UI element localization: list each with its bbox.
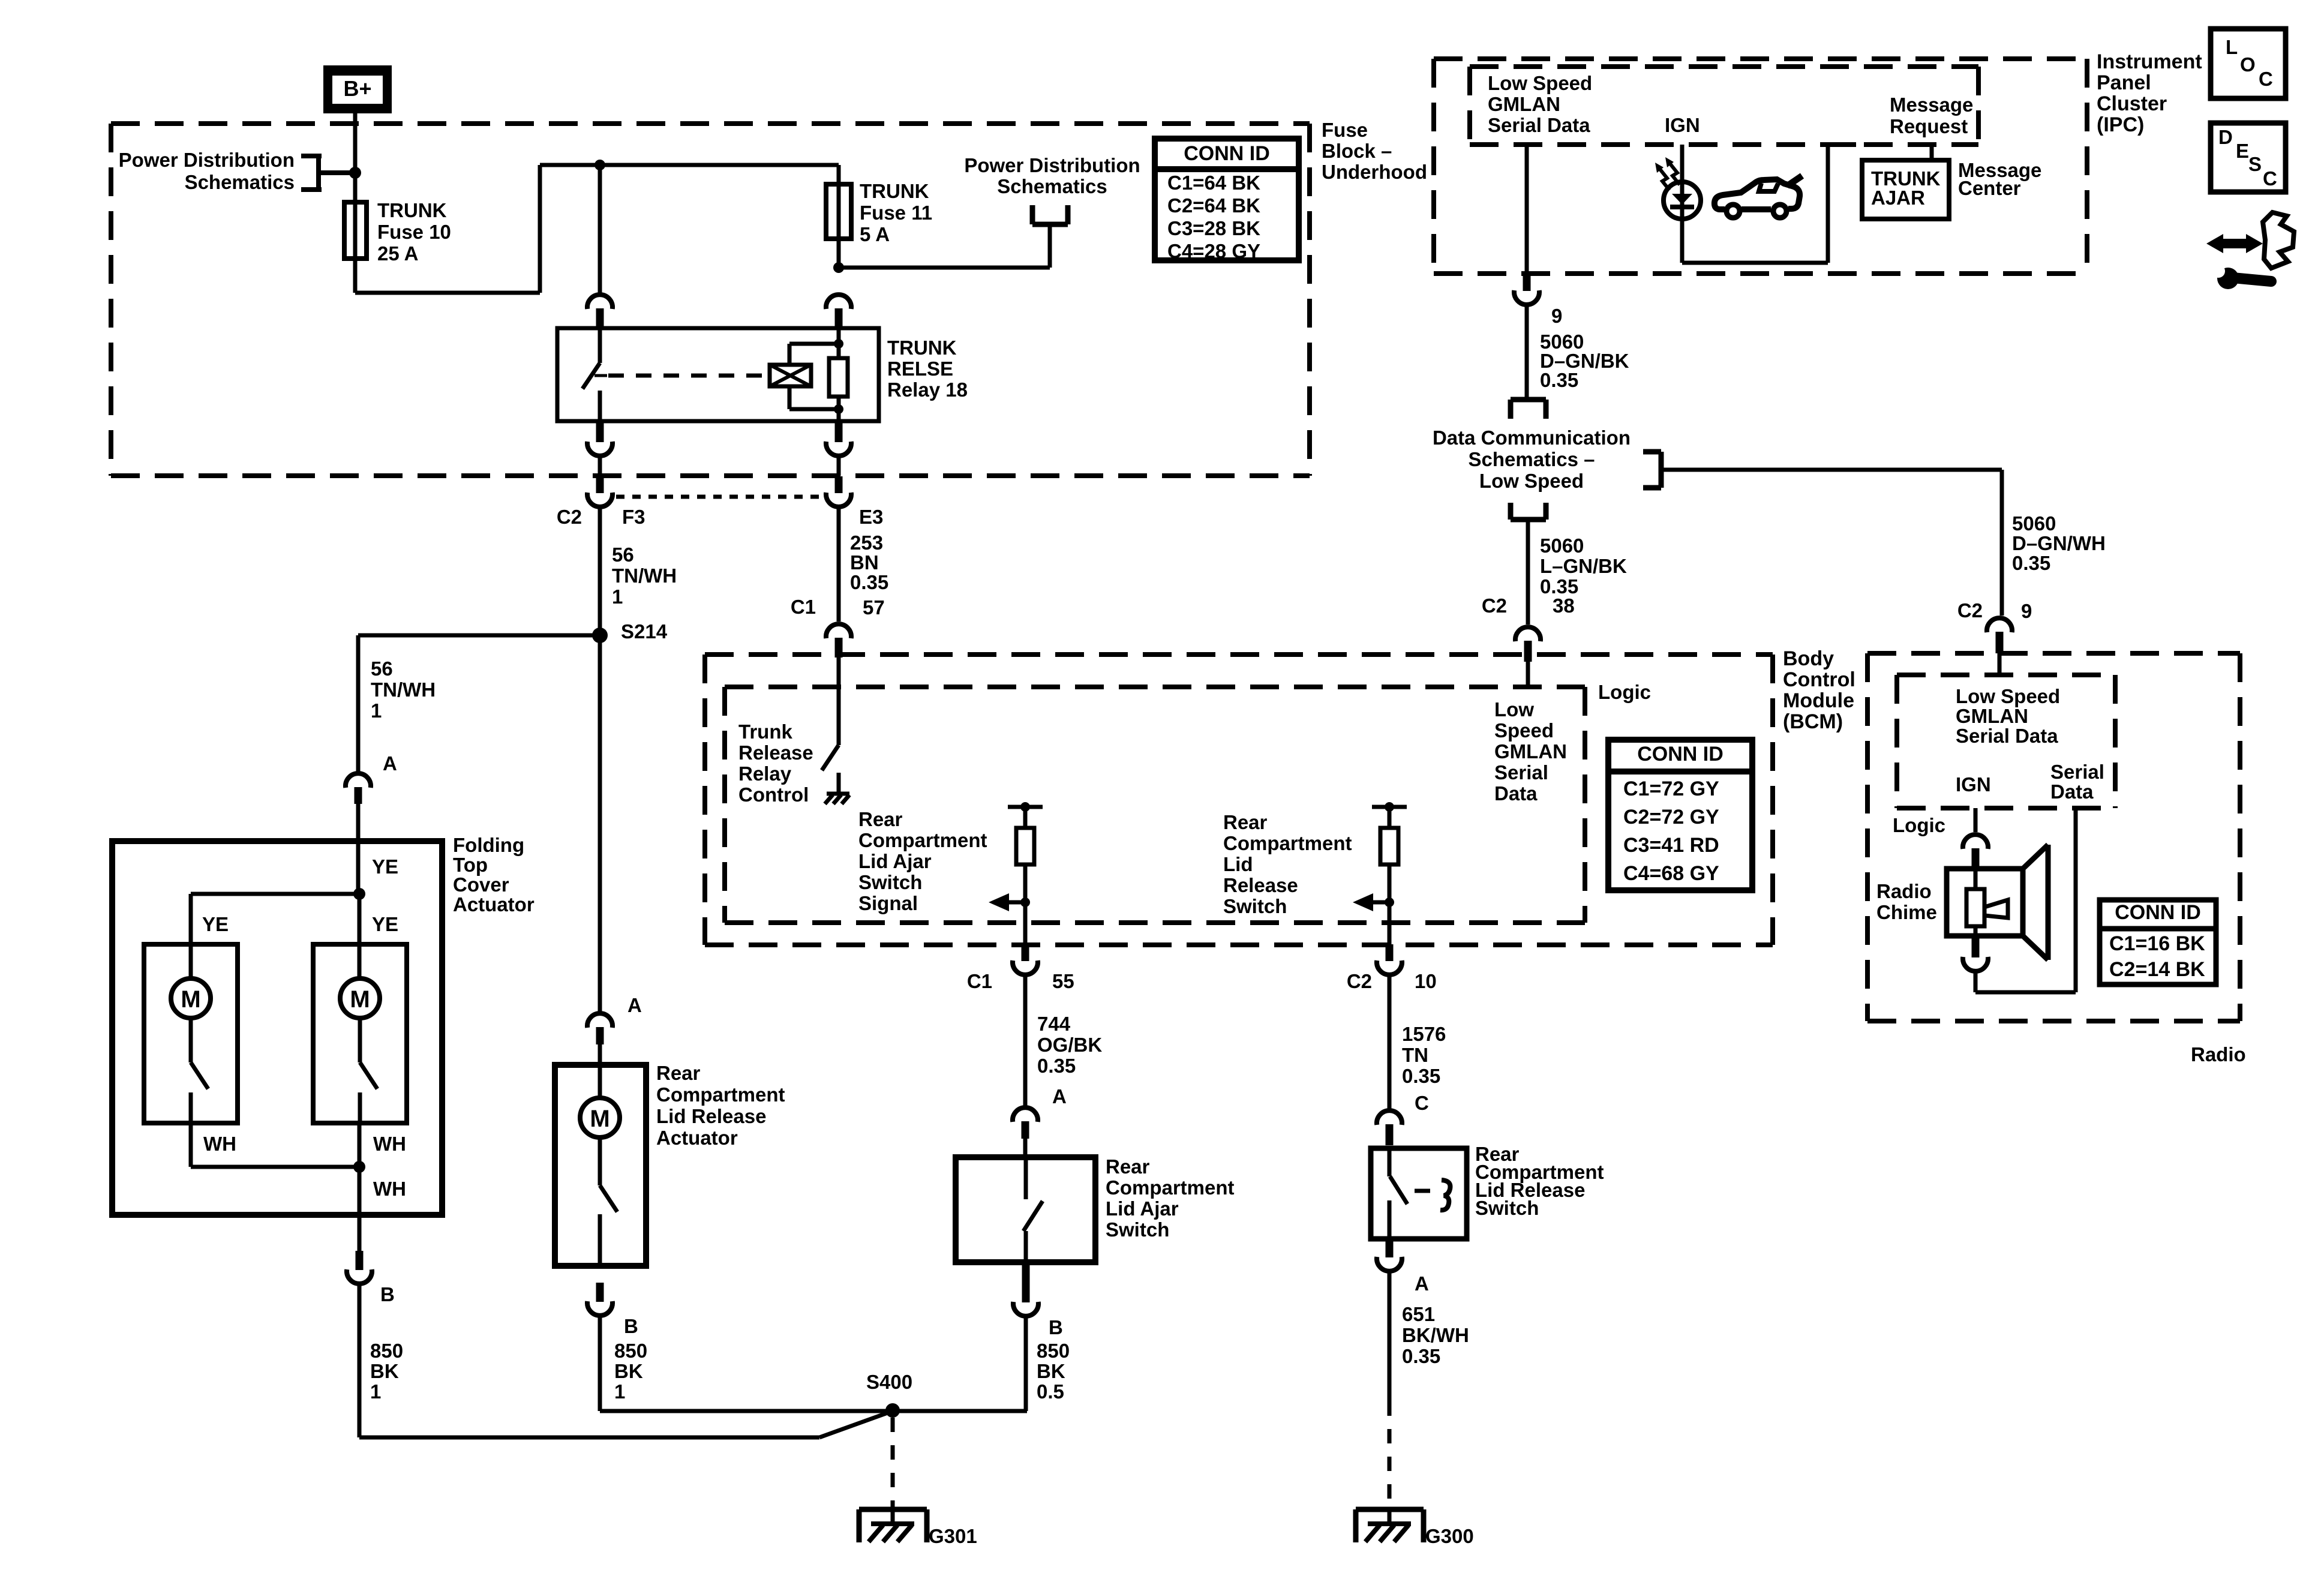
svg-text:M: M xyxy=(181,986,200,1013)
svg-text:D–GN/WH: D–GN/WH xyxy=(2012,532,2106,554)
svg-text:Data: Data xyxy=(1494,782,1538,804)
svg-text:C: C xyxy=(2263,167,2277,190)
svg-text:BK: BK xyxy=(1037,1360,1065,1382)
svg-text:Low Speed: Low Speed xyxy=(1479,470,1584,492)
svg-text:A: A xyxy=(383,752,397,775)
svg-text:0.35: 0.35 xyxy=(1402,1065,1440,1087)
svg-text:C2: C2 xyxy=(1482,595,1507,617)
svg-text:Schematics –: Schematics – xyxy=(1469,448,1595,470)
svg-text:9: 9 xyxy=(1551,305,1562,327)
svg-text:Chime: Chime xyxy=(1876,901,1937,923)
svg-text:CONN ID: CONN ID xyxy=(1637,743,1724,766)
svg-text:TRUNK: TRUNK xyxy=(377,199,447,221)
svg-text:25 A: 25 A xyxy=(377,242,418,265)
svg-text:Radio: Radio xyxy=(2191,1043,2246,1065)
svg-text:G300: G300 xyxy=(1425,1525,1474,1547)
svg-text:Module: Module xyxy=(1783,689,1854,712)
svg-text:Body: Body xyxy=(1783,647,1834,670)
svg-text:RELSE: RELSE xyxy=(887,358,953,380)
svg-text:A: A xyxy=(1052,1085,1067,1107)
svg-text:L: L xyxy=(2226,36,2238,58)
svg-text:C1=72 GY: C1=72 GY xyxy=(1623,778,1719,800)
svg-text:Control: Control xyxy=(1783,668,1855,691)
svg-text:Release: Release xyxy=(738,742,813,764)
svg-text:Data: Data xyxy=(2050,781,2094,803)
svg-text:TN/WH: TN/WH xyxy=(612,565,677,587)
svg-text:Switch: Switch xyxy=(1223,895,1287,917)
svg-text:B: B xyxy=(1049,1316,1063,1338)
svg-text:C4=28 GY: C4=28 GY xyxy=(1167,240,1260,262)
svg-text:B+: B+ xyxy=(343,76,371,101)
svg-text:OG/BK: OG/BK xyxy=(1037,1034,1102,1056)
svg-text:Low Speed: Low Speed xyxy=(1488,72,1592,94)
svg-text:Compartment: Compartment xyxy=(1106,1176,1235,1199)
svg-text:(IPC): (IPC) xyxy=(2097,113,2144,136)
svg-text:(BCM): (BCM) xyxy=(1783,710,1843,733)
svg-text:C2=64 BK: C2=64 BK xyxy=(1167,194,1260,217)
svg-text:Lid Release: Lid Release xyxy=(656,1105,766,1127)
svg-text:YE: YE xyxy=(372,855,398,878)
svg-text:WH: WH xyxy=(203,1133,236,1155)
svg-text:G301: G301 xyxy=(929,1525,977,1547)
svg-text:C3=41 RD: C3=41 RD xyxy=(1623,834,1719,857)
svg-text:56: 56 xyxy=(371,658,393,680)
svg-text:Release: Release xyxy=(1223,874,1298,896)
svg-text:5060: 5060 xyxy=(2012,512,2056,535)
svg-text:Fuse 11: Fuse 11 xyxy=(860,202,932,224)
svg-text:GMLAN: GMLAN xyxy=(1956,705,2028,727)
svg-text:Low: Low xyxy=(1494,698,1534,721)
svg-text:A: A xyxy=(627,994,642,1016)
svg-text:Fuse 10: Fuse 10 xyxy=(377,221,451,243)
svg-text:850: 850 xyxy=(614,1340,647,1362)
svg-text:Lid: Lid xyxy=(1223,853,1253,875)
svg-text:Logic: Logic xyxy=(1598,681,1651,703)
svg-text:WH: WH xyxy=(373,1178,406,1200)
svg-text:0.35: 0.35 xyxy=(1402,1345,1440,1367)
svg-text:Rear: Rear xyxy=(1106,1155,1150,1178)
svg-text:38: 38 xyxy=(1553,595,1575,617)
svg-text:Center: Center xyxy=(1958,177,2021,199)
svg-text:Lid Ajar: Lid Ajar xyxy=(1106,1197,1179,1220)
svg-text:Lid Ajar: Lid Ajar xyxy=(858,850,932,872)
svg-text:CONN ID: CONN ID xyxy=(1184,142,1270,165)
svg-text:C: C xyxy=(2259,68,2273,90)
svg-text:Serial: Serial xyxy=(2050,761,2104,783)
svg-text:M: M xyxy=(590,1106,609,1132)
svg-text:S214: S214 xyxy=(621,620,668,643)
svg-text:S: S xyxy=(2248,153,2262,175)
svg-text:Schematics: Schematics xyxy=(997,175,1107,197)
svg-text:850: 850 xyxy=(370,1340,403,1362)
svg-text:0.5: 0.5 xyxy=(1037,1380,1064,1403)
svg-text:Speed: Speed xyxy=(1494,719,1554,742)
svg-text:BN: BN xyxy=(850,551,879,574)
svg-text:10: 10 xyxy=(1415,970,1437,992)
svg-text:M: M xyxy=(350,986,370,1013)
svg-text:56: 56 xyxy=(612,544,634,566)
svg-text:GMLAN: GMLAN xyxy=(1494,740,1567,763)
svg-text:Actuator: Actuator xyxy=(453,893,535,915)
svg-text:Power Distribution: Power Distribution xyxy=(119,149,295,171)
svg-text:744: 744 xyxy=(1037,1013,1071,1035)
svg-text:O: O xyxy=(2240,53,2256,76)
svg-text:Rear: Rear xyxy=(656,1062,701,1084)
svg-text:Relay 18: Relay 18 xyxy=(887,379,968,401)
svg-text:0.35: 0.35 xyxy=(850,571,888,593)
svg-text:1: 1 xyxy=(370,1380,381,1403)
svg-text:Cluster: Cluster xyxy=(2097,92,2167,115)
svg-text:Switch: Switch xyxy=(1106,1218,1169,1241)
svg-text:A: A xyxy=(1415,1272,1429,1295)
svg-text:TRUNK: TRUNK xyxy=(887,337,957,359)
svg-text:Actuator: Actuator xyxy=(656,1127,738,1149)
svg-text:E: E xyxy=(2236,140,2249,162)
svg-text:Serial Data: Serial Data xyxy=(1488,114,1590,136)
svg-text:D: D xyxy=(2218,126,2233,148)
svg-text:Signal: Signal xyxy=(858,892,918,914)
svg-text:C3=28 BK: C3=28 BK xyxy=(1167,217,1260,239)
svg-text:BK: BK xyxy=(370,1360,399,1382)
svg-text:Control: Control xyxy=(738,784,809,806)
svg-text:Compartment: Compartment xyxy=(656,1083,785,1106)
svg-text:Instrument: Instrument xyxy=(2097,50,2202,73)
svg-text:253: 253 xyxy=(850,532,883,554)
svg-text:IGN: IGN xyxy=(1665,114,1700,136)
svg-text:E3: E3 xyxy=(859,506,883,528)
svg-text:Trunk: Trunk xyxy=(738,721,792,743)
svg-text:1: 1 xyxy=(614,1380,625,1403)
svg-text:Switch: Switch xyxy=(1475,1197,1539,1219)
svg-text:1576: 1576 xyxy=(1402,1023,1446,1045)
svg-text:5060: 5060 xyxy=(1540,535,1584,557)
svg-text:BK: BK xyxy=(614,1360,643,1382)
svg-text:Request: Request xyxy=(1890,115,1968,137)
svg-text:Serial: Serial xyxy=(1494,761,1548,784)
svg-text:CONN ID: CONN ID xyxy=(2115,901,2201,924)
svg-text:WH: WH xyxy=(373,1133,406,1155)
svg-text:Power Distribution: Power Distribution xyxy=(964,154,1140,176)
svg-text:C1: C1 xyxy=(967,970,992,992)
svg-text:Serial Data: Serial Data xyxy=(1956,725,2058,747)
svg-text:C1=64 BK: C1=64 BK xyxy=(1167,172,1260,194)
svg-text:850: 850 xyxy=(1037,1340,1070,1362)
svg-text:Logic: Logic xyxy=(1893,814,1945,836)
svg-text:TN/WH: TN/WH xyxy=(371,679,436,701)
svg-text:Rear: Rear xyxy=(1223,811,1268,833)
svg-text:B: B xyxy=(380,1283,395,1305)
svg-text:Folding: Folding xyxy=(453,834,524,856)
svg-text:1: 1 xyxy=(371,700,382,722)
svg-text:AJAR: AJAR xyxy=(1871,187,1925,209)
svg-text:5 A: 5 A xyxy=(860,223,890,245)
svg-text:B: B xyxy=(624,1315,638,1337)
svg-text:Schematics: Schematics xyxy=(185,171,295,193)
svg-text:TN: TN xyxy=(1402,1044,1428,1066)
svg-text:C2: C2 xyxy=(557,506,582,528)
svg-text:C2: C2 xyxy=(1957,599,1983,622)
svg-text:Radio: Radio xyxy=(1876,880,1932,902)
svg-text:Message: Message xyxy=(1890,94,1973,116)
svg-text:C1=16 BK: C1=16 BK xyxy=(2109,932,2205,955)
svg-text:C: C xyxy=(1415,1092,1429,1114)
svg-text:Rear: Rear xyxy=(858,808,903,830)
svg-text:C1: C1 xyxy=(791,596,816,618)
svg-text:Block –: Block – xyxy=(1322,140,1392,162)
svg-text:0.35: 0.35 xyxy=(1037,1055,1076,1077)
svg-text:Relay: Relay xyxy=(738,763,792,785)
svg-text:TRUNK: TRUNK xyxy=(860,180,929,202)
svg-text:C2: C2 xyxy=(1347,970,1372,992)
svg-text:YE: YE xyxy=(372,913,398,935)
svg-text:55: 55 xyxy=(1052,970,1074,992)
svg-text:0.35: 0.35 xyxy=(2012,552,2050,574)
svg-text:Underhood: Underhood xyxy=(1322,161,1427,183)
svg-text:Low Speed: Low Speed xyxy=(1956,685,2060,707)
svg-text:Top: Top xyxy=(453,854,488,876)
svg-text:F3: F3 xyxy=(622,506,645,528)
svg-text:57: 57 xyxy=(863,596,885,619)
svg-text:651: 651 xyxy=(1402,1303,1435,1325)
svg-text:C2=14 BK: C2=14 BK xyxy=(2109,958,2205,981)
svg-text:S400: S400 xyxy=(866,1371,912,1393)
svg-text:9: 9 xyxy=(2021,600,2032,622)
svg-text:1: 1 xyxy=(612,586,623,608)
svg-text:IGN: IGN xyxy=(1956,773,1991,795)
svg-text:Cover: Cover xyxy=(453,873,509,896)
svg-text:GMLAN: GMLAN xyxy=(1488,93,1560,115)
svg-text:Compartment: Compartment xyxy=(858,829,987,851)
svg-text:Switch: Switch xyxy=(858,871,922,893)
svg-text:BK/WH: BK/WH xyxy=(1402,1324,1469,1346)
svg-text:L–GN/BK: L–GN/BK xyxy=(1540,555,1627,577)
svg-text:YE: YE xyxy=(202,913,229,935)
svg-text:Compartment: Compartment xyxy=(1223,832,1352,854)
svg-text:0.35: 0.35 xyxy=(1540,369,1578,391)
svg-text:C2=72 GY: C2=72 GY xyxy=(1623,806,1719,828)
svg-text:Panel: Panel xyxy=(2097,71,2151,94)
svg-text:C4=68 GY: C4=68 GY xyxy=(1623,862,1719,885)
svg-text:Fuse: Fuse xyxy=(1322,119,1368,141)
svg-text:Data Communication: Data Communication xyxy=(1433,427,1631,449)
